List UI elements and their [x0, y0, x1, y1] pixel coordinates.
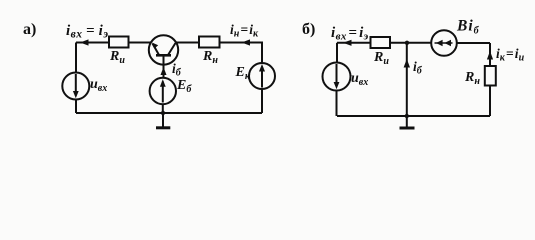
wire: a) top-left segment corner to R_i	[76, 42, 109, 44]
source E_k (a)	[249, 63, 275, 89]
wire: right branch E_k to bottom (a)	[261, 89, 263, 113]
wire: R_i to Bi_b source (b)	[390, 42, 432, 44]
wire: left branch bottom (a)	[75, 100, 77, 114]
current arrow i_vx (a)	[80, 39, 89, 45]
wire: left branch top (b)	[336, 43, 338, 63]
source u_vx (a)	[62, 73, 89, 100]
transistor VT (a)	[149, 35, 178, 64]
resistor R_n (a)	[199, 37, 220, 48]
svg-text:а): а)	[23, 21, 36, 38]
resistor R_i (b)	[371, 37, 391, 48]
wire: R_i to transistor (a)	[129, 42, 152, 44]
node: bottom junction (a)	[161, 111, 165, 115]
node: bottom junction (b)	[405, 114, 409, 118]
node: top junction (b)	[405, 41, 409, 45]
wire: R_n to top-right corner down to E_k (a)	[220, 43, 263, 64]
current arrow i_vx (b)	[343, 40, 352, 46]
ground (b)	[400, 116, 415, 128]
wire: R_n to bottom-right corner (b)	[337, 86, 490, 117]
wire: transistor to R_n (a)	[176, 42, 199, 44]
resistor R_n (b)	[485, 66, 496, 86]
wire: b) top-left corner to R_i	[337, 42, 371, 44]
source E_b (a)	[150, 78, 176, 104]
current arrow i_n (a)	[242, 39, 251, 45]
wire: middle branch (b)	[406, 43, 408, 116]
wire: left branch top (a)	[75, 43, 77, 73]
current arrow i_k (b)	[487, 51, 493, 60]
current arrow i_b (a)	[161, 67, 167, 75]
wire: Bi_b to top-right corner (b)	[457, 43, 490, 66]
wire: left branch bottom (b)	[336, 91, 338, 117]
svg-text:б): б)	[302, 21, 315, 38]
wire: transistor base lead to E_b (a)	[163, 65, 165, 78]
source Bi_b (b)	[431, 30, 457, 56]
current arrow i_b (b)	[404, 59, 410, 68]
source u_vx (b)	[323, 63, 351, 91]
resistor R_i (a)	[109, 37, 129, 48]
wire: bottom (a)	[76, 112, 262, 114]
wire: E_b to bottom (a)	[162, 104, 164, 113]
ground (a)	[156, 113, 170, 128]
